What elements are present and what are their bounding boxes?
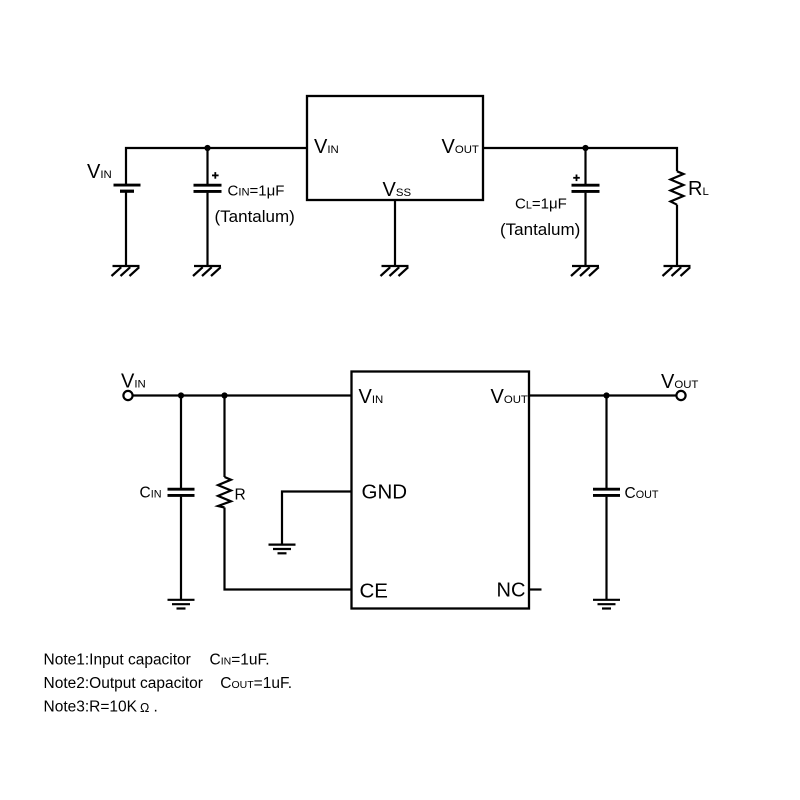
svg-text:(Tantalum): (Tantalum) — [215, 207, 295, 226]
node C: junction dot CIN2 tap — [178, 392, 184, 398]
ground (GND pin) — [269, 545, 296, 554]
node D: junction dot R tap — [221, 392, 227, 398]
wire: R bottom to CE pin — [225, 508, 352, 590]
svg-text:Note3:R=10K: Note3:R=10K — [44, 698, 138, 715]
wire: R top — [223, 396, 225, 478]
svg-text:NC: NC — [497, 580, 526, 602]
svg-text:VIN: VIN — [359, 386, 384, 408]
svg-text:GND: GND — [362, 481, 408, 504]
wire: COUT top — [605, 396, 607, 489]
svg-text:RL: RL — [688, 178, 709, 200]
terminal VOUT (output) — [676, 391, 685, 400]
capacitor COUT plates — [593, 489, 620, 495]
wire: CIN2 bottom to ground — [180, 497, 182, 599]
resistor R zigzag — [218, 477, 231, 508]
svg-text:CE: CE — [360, 580, 388, 603]
wire: RL bottom to ground — [676, 205, 678, 266]
svg-text:VIN: VIN — [121, 371, 146, 393]
wire: VSS to ground — [394, 200, 396, 266]
svg-text:COUT=1uF.: COUT=1uF. — [220, 675, 292, 692]
svg-text:VOUT: VOUT — [491, 386, 528, 408]
wire: U2 VOUT to terminal — [529, 394, 676, 396]
svg-text:Note1:Input capacitor: Note1:Input capacitor — [44, 651, 191, 668]
svg-text:R: R — [235, 487, 246, 504]
svg-text:VSS: VSS — [383, 179, 412, 201]
wire: CIN bottom to ground — [206, 193, 208, 266]
wire: VIN terminal to U2 — [133, 394, 352, 396]
terminal VIN (input) — [123, 391, 132, 400]
wire: CL top — [584, 148, 586, 184]
wire: NC stub — [529, 588, 542, 590]
ground (CIN bottom circuit) — [168, 600, 195, 609]
resistor RL zigzag — [671, 171, 684, 204]
CL polarity plus sign — [573, 175, 580, 182]
svg-text:CIN=1uF.: CIN=1uF. — [210, 651, 270, 668]
wire: CIN2 top — [180, 396, 182, 489]
ground (battery) — [112, 266, 140, 276]
wire: battery bottom to ground — [125, 193, 127, 266]
wire: CIN top — [206, 148, 208, 184]
svg-text:VIN: VIN — [314, 136, 339, 158]
svg-text:CL=1μF: CL=1μF — [515, 195, 567, 212]
CIN polarity plus sign — [212, 172, 219, 179]
regulator U1 box — [307, 96, 483, 200]
wire: CL bottom to ground — [584, 193, 586, 266]
node E: junction dot COUT tap — [603, 392, 609, 398]
svg-text:CIN: CIN — [140, 485, 162, 502]
capacitor CIN plates — [194, 185, 222, 191]
ground (VSS) — [381, 266, 409, 276]
IC U2 box — [352, 372, 530, 609]
wire: regulator VOUT to RL top — [483, 148, 677, 171]
svg-text:CIN=1μF: CIN=1μF — [228, 183, 285, 200]
svg-text:Ω: Ω — [140, 701, 149, 715]
capacitor CIN (bottom circuit) plates — [168, 489, 195, 495]
battery V_IN source — [114, 185, 141, 191]
svg-text:COUT: COUT — [625, 485, 659, 502]
ground (CIN) — [193, 266, 221, 276]
svg-text:VIN: VIN — [87, 161, 112, 183]
node A: junction dot at CIN tap — [204, 145, 210, 151]
svg-text:VOUT: VOUT — [442, 136, 479, 158]
svg-text:VOUT: VOUT — [661, 371, 698, 393]
wire: GND pin to ground — [282, 492, 352, 545]
svg-text:.: . — [154, 698, 158, 715]
capacitor CL plates — [572, 185, 600, 191]
node B: junction dot at CL tap — [582, 145, 588, 151]
wire: COUT bottom to ground — [605, 497, 607, 599]
svg-text:(Tantalum): (Tantalum) — [500, 220, 580, 239]
ground (COUT) — [593, 600, 620, 609]
svg-text:Note2:Output capacitor: Note2:Output capacitor — [44, 675, 203, 692]
ground (RL) — [663, 266, 691, 276]
ground (CL) — [571, 266, 599, 276]
wire: battery top to regulator VIN — [126, 148, 307, 184]
